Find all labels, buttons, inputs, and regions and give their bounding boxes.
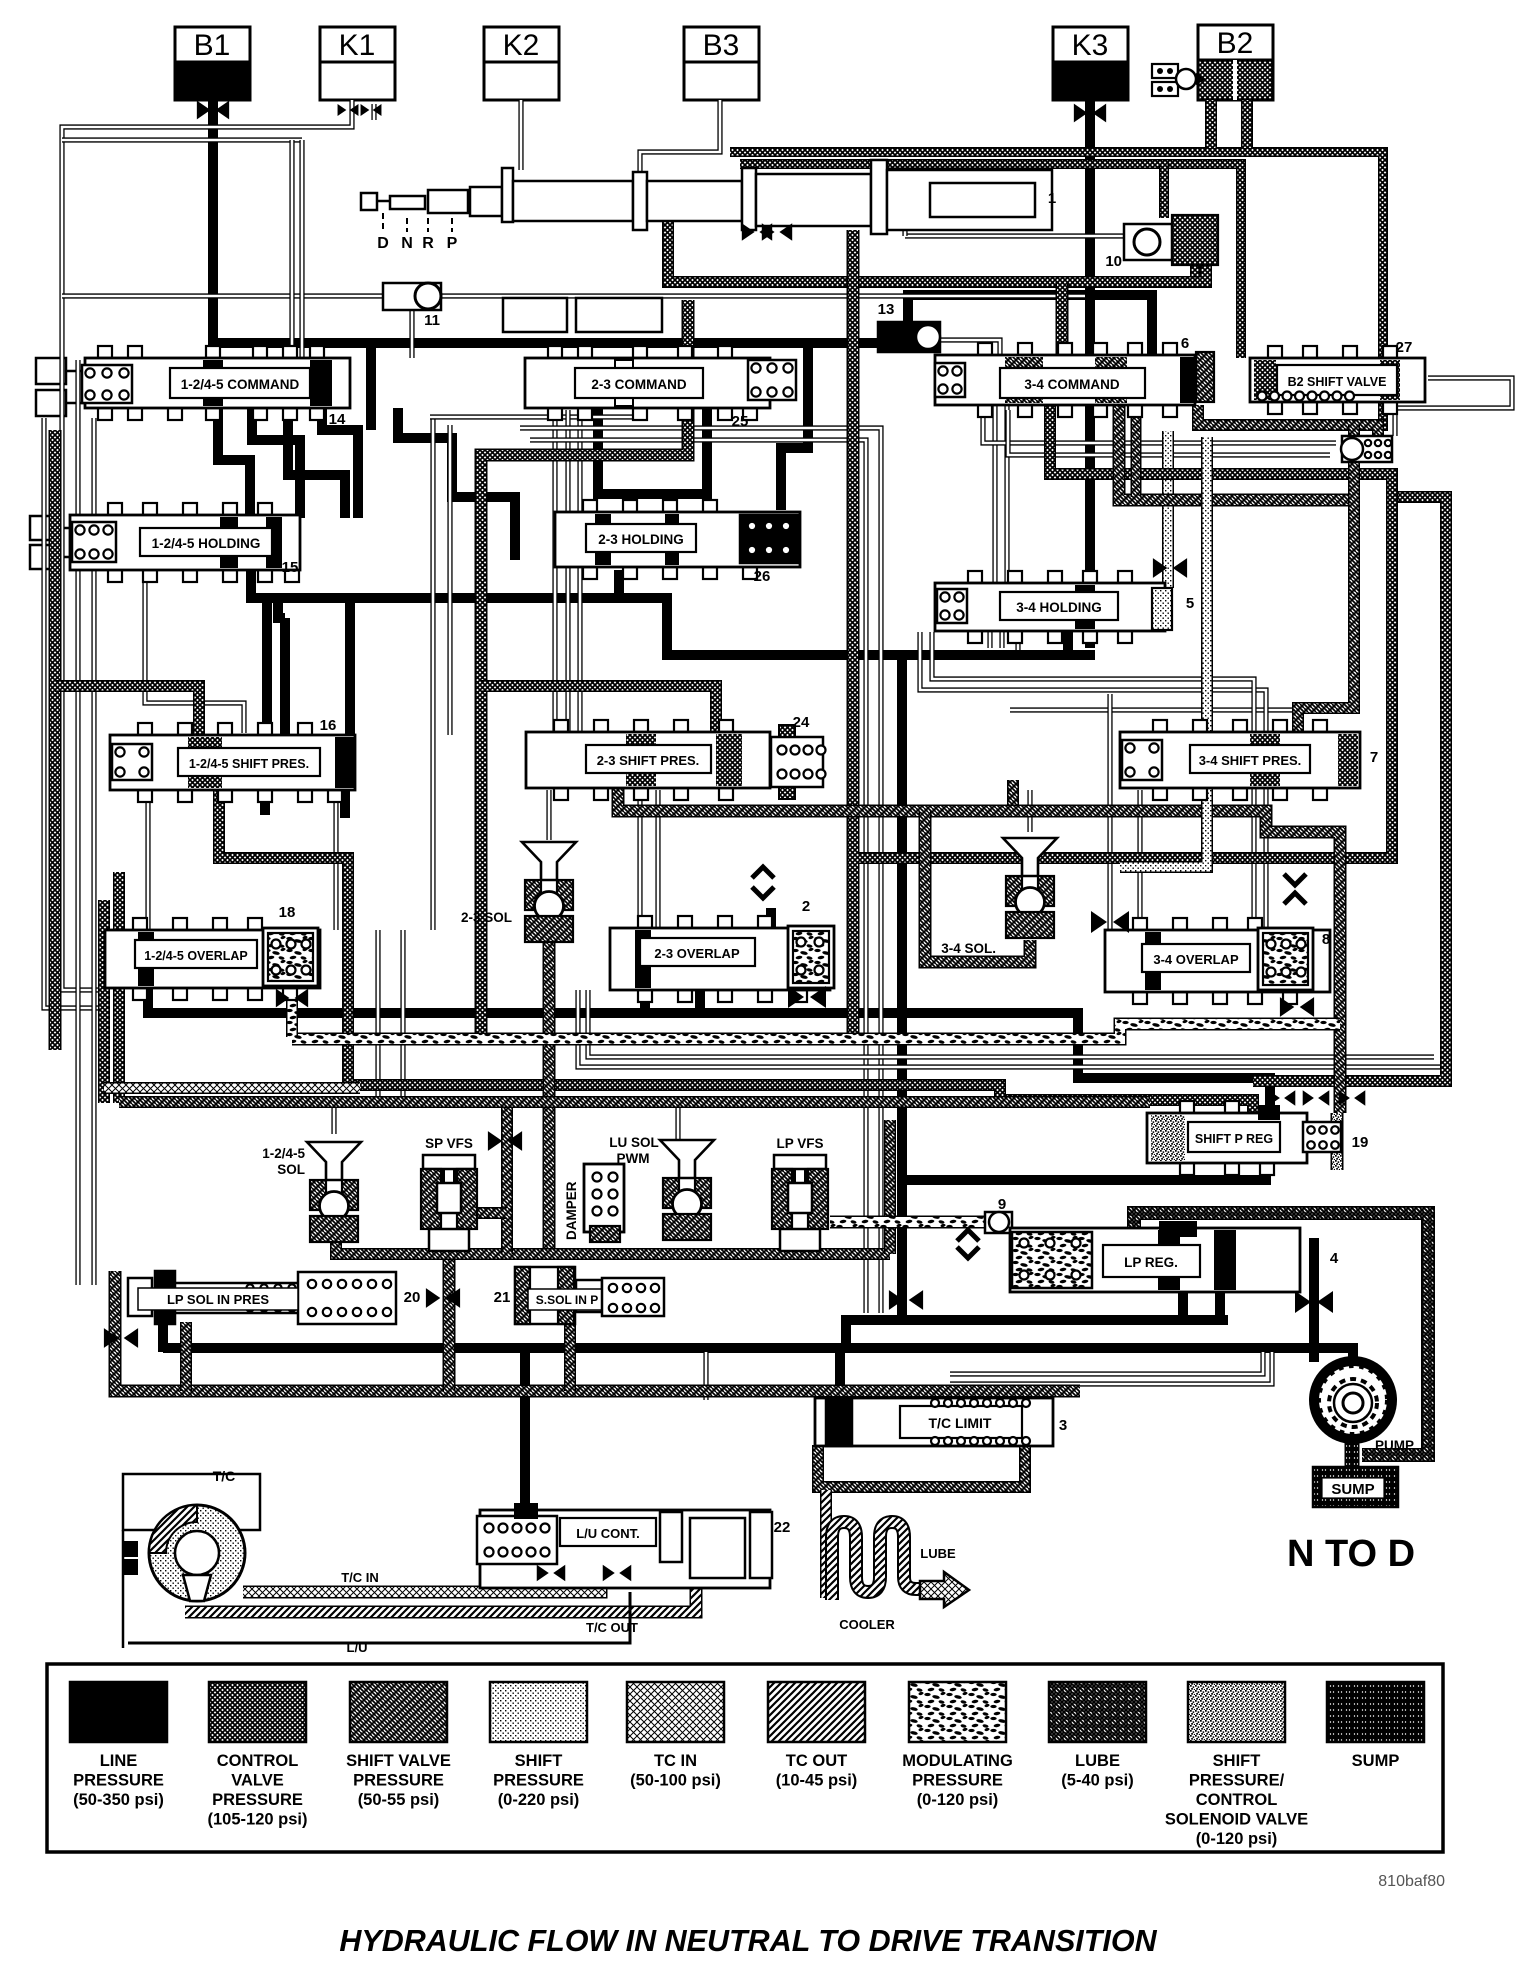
wire (213, 338, 882, 348)
L/U line (128, 1592, 630, 1643)
wire (345, 598, 355, 790)
torque converter T/C (123, 1474, 260, 1530)
svg-text:3-4 SOL.: 3-4 SOL. (941, 941, 996, 956)
svg-text:9: 9 (998, 1196, 1006, 1213)
wire (1056, 282, 1069, 358)
wire (243, 1566, 601, 1592)
wire (62, 137, 302, 142)
svg-text:T/C: T/C (213, 1468, 236, 1484)
svg-text:LP REG.: LP REG. (1124, 1255, 1178, 1270)
pump (1309, 1356, 1397, 1444)
wire (520, 1348, 530, 1512)
wire (1178, 1290, 1188, 1320)
wire (409, 310, 414, 358)
wire (288, 408, 345, 518)
wire (49, 430, 62, 1050)
wire (366, 343, 376, 430)
wire (925, 811, 1030, 962)
svg-text:3-4 OVERLAP: 3-4 OVERLAP (1153, 952, 1239, 967)
svg-text:1-2/4-5: 1-2/4-5 (262, 1146, 305, 1161)
chevron (957, 1247, 979, 1258)
wire (75, 360, 80, 1285)
DNRP labels (383, 213, 452, 232)
valve 3-4 HOLDING (5) (968, 571, 982, 583)
svg-text:1-2/4-5 HOLDING: 1-2/4-5 HOLDING (152, 536, 261, 551)
flow restrictor (338, 104, 359, 116)
svg-text:5: 5 (1186, 595, 1194, 612)
wire (219, 790, 1253, 1117)
wire (1085, 100, 1095, 648)
wire (447, 425, 452, 735)
valve 2-3 HOLDING (26) (583, 500, 597, 512)
solenoid 1-2/4-5 SOL (307, 1142, 361, 1180)
flow restrictor (426, 1288, 460, 1308)
check ball near B2 (1152, 64, 1178, 78)
wire (443, 1230, 456, 1391)
wire (552, 410, 557, 732)
svg-text:(105-120 psi): (105-120 psi) (208, 1811, 308, 1829)
wire (565, 410, 570, 732)
valve T/C LIMIT (3) (815, 1398, 1053, 1446)
legend swatch MODULATING (909, 1682, 1006, 1742)
solenoid SP VFS (423, 1155, 475, 1169)
wire (398, 408, 515, 560)
wire (1331, 1113, 1344, 1170)
legend swatch SUMP (1327, 1682, 1424, 1742)
svg-text:T/C LIMIT: T/C LIMIT (929, 1415, 992, 1431)
svg-text:(50-100 psi): (50-100 psi) (630, 1772, 721, 1790)
svg-text:1-2/4-5 OVERLAP: 1-2/4-5 OVERLAP (144, 949, 248, 963)
wire (841, 1315, 851, 1352)
svg-text:LUBE: LUBE (920, 1546, 956, 1561)
svg-text:SHIFT: SHIFT (1213, 1752, 1261, 1770)
svg-text:16: 16 (320, 717, 337, 734)
svg-text:SOL: SOL (277, 1162, 305, 1177)
wire (331, 1100, 336, 1134)
wire (1120, 437, 1207, 867)
svg-text:26: 26 (754, 568, 771, 585)
wire (637, 790, 642, 928)
svg-text:1-2/4-5 COMMAND: 1-2/4-5 COMMAND (181, 377, 300, 392)
svg-text:(0-120 psi): (0-120 psi) (1196, 1830, 1278, 1848)
svg-text:T/C IN: T/C IN (341, 1570, 379, 1585)
legend swatch CONTROL (209, 1682, 306, 1742)
chevron (752, 867, 774, 878)
wire (1253, 497, 1446, 1081)
svg-text:6: 6 (1181, 335, 1189, 352)
wire (578, 990, 1447, 1067)
flow restrictor (488, 1131, 522, 1151)
solenoid 3-4 SOL. (1003, 838, 1057, 876)
wire (897, 655, 907, 1320)
wire (292, 1024, 1340, 1039)
wire (289, 140, 294, 358)
wire (336, 1225, 890, 1254)
valve L/U CONT (22) (480, 1510, 770, 1588)
svg-text:SHIFT P REG: SHIFT P REG (1195, 1132, 1273, 1146)
wire (481, 686, 716, 735)
svg-text:3: 3 (1059, 1417, 1067, 1434)
valve 3-4 COMMAND (6) (978, 343, 992, 355)
svg-text:PRESSURE: PRESSURE (353, 1772, 444, 1790)
wire (932, 632, 1254, 928)
manual valve 1 (361, 160, 1052, 234)
wire (1007, 780, 1019, 811)
wire (1298, 425, 1354, 734)
wire (858, 405, 1392, 858)
wire (98, 900, 110, 1103)
channel boxes above valve 25 (503, 298, 567, 332)
wire (618, 788, 1340, 1113)
svg-text:B1: B1 (194, 29, 231, 62)
wire (158, 1322, 168, 1352)
wire (703, 1352, 708, 1400)
wire (730, 152, 1383, 431)
flow restrictor (1153, 558, 1187, 578)
wire (950, 1352, 1272, 1384)
wire (999, 630, 1004, 648)
wire (1162, 431, 1174, 588)
legend swatch LINE (70, 1682, 167, 1742)
svg-text:D: D (377, 235, 389, 252)
damper (584, 1164, 624, 1232)
svg-text:SHIFT VALVE: SHIFT VALVE (346, 1752, 451, 1770)
valve 1-2/4-5 COMMAND (14) (98, 346, 112, 358)
svg-text:TC OUT: TC OUT (786, 1752, 847, 1770)
svg-text:MODULATING: MODULATING (902, 1752, 1013, 1770)
wire (695, 990, 705, 1013)
wire (902, 1155, 1266, 1180)
svg-text:TC IN: TC IN (654, 1752, 697, 1770)
wire (1198, 405, 1378, 452)
valve 3-4 OVERLAP (8) (1133, 918, 1147, 930)
svg-text:PRESSURE: PRESSURE (212, 1791, 303, 1809)
wire (278, 598, 285, 618)
wire (702, 408, 712, 518)
wire (400, 930, 405, 1103)
wire (740, 164, 1241, 358)
svg-text:L/U: L/U (347, 1640, 368, 1655)
svg-text:HYDRAULIC FLOW IN NEUTRAL TO D: HYDRAULIC FLOW IN NEUTRAL TO DRIVE TRANS… (339, 1924, 1157, 1958)
wire (846, 1315, 1228, 1325)
svg-text:CONTROL: CONTROL (1196, 1791, 1278, 1809)
wire (458, 1207, 507, 1219)
legend swatch SHIFT (1188, 1682, 1285, 1742)
wire (766, 908, 776, 930)
svg-text:(10-45 psi): (10-45 psi) (776, 1772, 858, 1790)
svg-text:18: 18 (279, 904, 296, 921)
flow restrictor (788, 986, 826, 1008)
svg-text:K3: K3 (1072, 29, 1109, 62)
valve 1-2/4-5 SHIFT PRES (16) (138, 723, 152, 735)
chevron (1284, 893, 1306, 904)
wire (501, 1105, 513, 1254)
flow restrictor (1091, 911, 1129, 933)
valve 1-2/4-5 OVERLAP (18) (133, 918, 147, 930)
wire (375, 930, 380, 1103)
svg-text:VALVE: VALVE (231, 1772, 284, 1790)
wire (185, 1580, 696, 1612)
wire (983, 410, 1336, 443)
wire (1345, 1440, 1360, 1470)
flow restrictor (1280, 997, 1314, 1017)
wire (340, 790, 350, 818)
svg-text:14: 14 (329, 411, 346, 428)
wire (1134, 1213, 1428, 1455)
svg-text:LU SOL: LU SOL (609, 1135, 659, 1150)
svg-text:LINE: LINE (100, 1752, 138, 1770)
node B2 (1198, 25, 1273, 60)
svg-text:L/U CONT.: L/U CONT. (576, 1526, 640, 1541)
wire (145, 572, 244, 733)
solenoid 2-3 SOL (522, 842, 576, 880)
wire (818, 1445, 1025, 1487)
valve LP REG (4) (1010, 1228, 1300, 1292)
wire (1159, 164, 1169, 218)
svg-text:SOLENOID VALVE: SOLENOID VALVE (1165, 1811, 1308, 1829)
ball valve 10 (1124, 224, 1172, 260)
wire (908, 295, 1152, 360)
flow restrictor (1074, 104, 1106, 123)
svg-text:(0-220 psi): (0-220 psi) (498, 1791, 580, 1809)
flow restrictor (603, 1565, 632, 1582)
wire (950, 1352, 1263, 1374)
wire (543, 940, 556, 1254)
svg-text:PRESSURE: PRESSURE (912, 1772, 1003, 1790)
svg-text:K1: K1 (339, 29, 376, 62)
wire (55, 686, 199, 735)
flow restrictor (197, 101, 229, 120)
cooler coil (832, 1522, 922, 1600)
wire (62, 100, 352, 990)
valve 2-3 COMMAND (25) (548, 346, 562, 358)
wire (640, 100, 720, 185)
wire (62, 293, 1085, 298)
svg-text:21: 21 (494, 1289, 511, 1306)
wire (884, 1120, 896, 1254)
svg-text:S.SOL IN P: S.SOL IN P (536, 1293, 598, 1307)
svg-text:2-3 HOLDING: 2-3 HOLDING (598, 532, 684, 547)
flow restrictor (889, 1290, 923, 1310)
svg-text:2-3 SOL: 2-3 SOL (461, 910, 512, 925)
wire (113, 872, 125, 1103)
wire (44, 418, 105, 1008)
svg-text:SUMP: SUMP (1331, 1481, 1374, 1498)
wire (115, 1271, 1080, 1391)
wire (148, 985, 1270, 1112)
legend frame (47, 1664, 1443, 1852)
wire (530, 440, 866, 1313)
svg-text:2-3 COMMAND: 2-3 COMMAND (591, 377, 687, 392)
wire (564, 1325, 576, 1391)
bracket boxes left of valve 14 (36, 358, 66, 384)
svg-text:LP SOL IN PRES: LP SOL IN PRES (167, 1292, 269, 1307)
svg-text:LP VFS: LP VFS (776, 1136, 823, 1151)
wire (260, 790, 270, 815)
flow restrictor (104, 1328, 138, 1348)
wire (577, 410, 582, 732)
valve B2 SHIFT VALVE (27) (1268, 346, 1282, 358)
wire (430, 417, 435, 930)
wire (987, 630, 992, 648)
flow restrictor (276, 989, 308, 1008)
wire (208, 100, 218, 408)
wire (119, 1096, 1150, 1108)
wire (1107, 694, 1112, 930)
svg-text:(0-120 psi): (0-120 psi) (917, 1791, 999, 1809)
svg-text:(5-40 psi): (5-40 psi) (1061, 1772, 1133, 1790)
wire (905, 233, 1126, 238)
wire (371, 104, 376, 120)
valve 1-2/4-5 HOLDING (15) (108, 503, 122, 515)
wire (1241, 100, 1253, 148)
flow restrictor (537, 1565, 566, 1582)
wire (902, 215, 907, 236)
node K2 (484, 27, 559, 62)
svg-text:SUMP: SUMP (1352, 1752, 1400, 1770)
wire (1205, 100, 1217, 148)
chevron (752, 887, 774, 898)
wire (251, 570, 1095, 655)
legend swatch TC IN (627, 1682, 724, 1742)
flow restrictor (742, 223, 772, 241)
svg-text:3-4 SHIFT PRES.: 3-4 SHIFT PRES. (1199, 753, 1302, 768)
wire (847, 230, 860, 1035)
bracket boxes left of valve 15 (30, 516, 58, 540)
svg-text:PUMP: PUMP (1375, 1438, 1414, 1453)
solenoid (660, 1140, 714, 1178)
svg-text:2-3 OVERLAP: 2-3 OVERLAP (654, 946, 740, 961)
legend swatch LUBE (1049, 1682, 1146, 1742)
wire (1395, 378, 1512, 436)
svg-text:R: R (422, 235, 434, 252)
wire (299, 140, 304, 358)
node B3 (684, 27, 759, 62)
sump (1313, 1467, 1398, 1507)
valve 3-4 SHIFT PRES (7) (1153, 720, 1167, 732)
flow restrictor (361, 104, 382, 116)
wire (1010, 710, 1295, 734)
wire (640, 965, 650, 1013)
svg-text:2-3 SHIFT PRES.: 2-3 SHIFT PRES. (597, 753, 700, 768)
solenoid LP VFS (774, 1155, 826, 1169)
wire (518, 100, 523, 170)
svg-text:3-4 COMMAND: 3-4 COMMAND (1024, 377, 1120, 392)
wire (1131, 405, 1142, 497)
svg-text:13: 13 (878, 301, 895, 318)
svg-text:PRESSURE/: PRESSURE/ (1189, 1772, 1285, 1790)
ball valve 11 (383, 283, 441, 310)
svg-text:SHIFT: SHIFT (515, 1752, 563, 1770)
wire (598, 408, 707, 518)
wire (546, 790, 551, 840)
svg-text:1: 1 (1048, 190, 1056, 207)
svg-text:3-4 HOLDING: 3-4 HOLDING (1016, 600, 1102, 615)
svg-text:22: 22 (774, 1519, 791, 1536)
wire (1063, 630, 1073, 655)
wire (262, 603, 272, 735)
wire (1015, 630, 1020, 650)
svg-text:N: N (401, 235, 413, 252)
svg-text:CONTROL: CONTROL (217, 1752, 299, 1770)
flow restrictor (1295, 1291, 1333, 1313)
svg-text:COOLER: COOLER (839, 1617, 895, 1632)
wire (781, 348, 808, 510)
svg-text:20: 20 (404, 1289, 421, 1306)
wire (280, 618, 290, 735)
wire (104, 1082, 360, 1094)
node K3 (1053, 27, 1128, 62)
chevron (1284, 874, 1306, 885)
valve LP SOL IN PRES (20) (128, 1278, 152, 1316)
flow restrictor (1269, 1090, 1296, 1105)
wire (163, 1348, 1353, 1364)
svg-text:B2: B2 (1217, 27, 1254, 60)
wire (1119, 405, 1354, 500)
svg-text:(50-350 psi): (50-350 psi) (73, 1791, 164, 1809)
svg-text:7: 7 (1370, 749, 1378, 766)
wire (588, 990, 1434, 1057)
svg-text:2: 2 (802, 898, 810, 915)
legend swatch SHIFT VALVE (350, 1682, 447, 1742)
svg-text:(50-55 psi): (50-55 psi) (358, 1791, 440, 1809)
svg-text:4: 4 (1330, 1250, 1339, 1267)
wire (1004, 405, 1009, 585)
wire (1309, 1238, 1319, 1362)
wire (1008, 410, 1330, 455)
wire (835, 1348, 845, 1405)
wire (481, 300, 688, 1035)
wire (655, 790, 660, 928)
svg-text:P: P (447, 235, 458, 252)
svg-text:PRESSURE: PRESSURE (493, 1772, 584, 1790)
svg-text:15: 15 (282, 559, 299, 576)
wire (252, 408, 300, 518)
wire (1190, 262, 1200, 284)
svg-text:N TO D: N TO D (1287, 1533, 1415, 1575)
legend swatch SHIFT (490, 1682, 587, 1742)
svg-text:B3: B3 (703, 29, 740, 62)
flow restrictor (762, 223, 792, 241)
svg-text:25: 25 (732, 413, 749, 430)
wire (1027, 790, 1032, 832)
svg-text:10: 10 (1105, 253, 1122, 270)
wire (1215, 1290, 1225, 1320)
wire (940, 340, 1000, 358)
svg-text:19: 19 (1352, 1134, 1369, 1151)
wire (675, 1102, 680, 1140)
wire (286, 986, 298, 1037)
wire (180, 1322, 192, 1391)
svg-text:810baf80: 810baf80 (1378, 1873, 1445, 1890)
svg-text:11: 11 (424, 312, 440, 329)
wire (668, 182, 1206, 282)
valve SHIFT P REG (19) (1180, 1101, 1194, 1113)
chevron (957, 1230, 979, 1241)
wire (920, 632, 1266, 928)
svg-text:PRESSURE: PRESSURE (73, 1772, 164, 1790)
wire (520, 428, 881, 1313)
wire (333, 790, 338, 930)
svg-text:27: 27 (1396, 339, 1413, 356)
svg-text:8: 8 (1322, 931, 1330, 948)
wire (91, 418, 96, 1285)
node K1 (320, 27, 395, 62)
svg-text:K2: K2 (503, 29, 540, 62)
wire (322, 408, 358, 518)
svg-text:SP VFS: SP VFS (425, 1136, 473, 1151)
flow restrictor (1339, 1090, 1366, 1105)
